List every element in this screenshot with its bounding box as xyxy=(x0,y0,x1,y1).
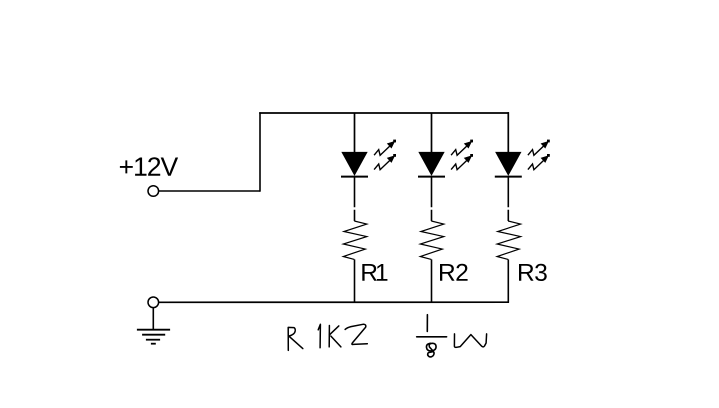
LED D2 light arrows xyxy=(451,146,467,170)
handwritten note: value 1K2 digit 2 xyxy=(345,324,367,344)
wire R1 to bottom bus xyxy=(354,259,356,302)
label R1 xyxy=(362,264,387,281)
ground xyxy=(137,330,170,344)
wire LED3 anode drop xyxy=(507,112,509,152)
wire riser left xyxy=(259,112,261,191)
label R2 xyxy=(440,264,468,281)
wire LED1 anode drop xyxy=(354,113,356,153)
wire top bus xyxy=(259,112,509,114)
handwritten note: W xyxy=(454,334,486,347)
wire LED1 cathode to R1 (with small gap) xyxy=(354,177,356,221)
wire terminal to ground xyxy=(152,308,154,330)
wire bottom bus xyxy=(159,301,509,303)
handwritten note: fraction 1/8 xyxy=(417,315,447,357)
terminal (+12V) xyxy=(148,186,159,197)
wire LED3 cathode to R3 (with small gap) xyxy=(507,177,509,221)
resistor R2 xyxy=(420,221,444,259)
LED D2 xyxy=(418,152,445,176)
LED D3 light arrows xyxy=(528,146,544,170)
wire R2 to bottom bus xyxy=(431,259,433,302)
label R3 xyxy=(519,264,547,281)
wire from +12V terminal to riser xyxy=(159,190,260,192)
wire LED2 cathode to R2 (with small gap) xyxy=(431,177,433,221)
resistor R1 xyxy=(343,221,367,259)
handwritten note: 1 xyxy=(318,324,320,347)
resistor R3 xyxy=(497,221,520,259)
handwritten note: R xyxy=(288,327,303,350)
LED D1 xyxy=(341,152,368,176)
terminal (ground side) xyxy=(148,297,159,308)
handwritten note: K xyxy=(329,326,341,347)
LED D1 light arrows xyxy=(374,146,390,170)
net label +12V xyxy=(120,157,178,176)
LED D3 xyxy=(495,152,522,176)
wire R3 to bottom bus xyxy=(507,259,509,302)
wire LED2 anode drop xyxy=(431,113,433,153)
